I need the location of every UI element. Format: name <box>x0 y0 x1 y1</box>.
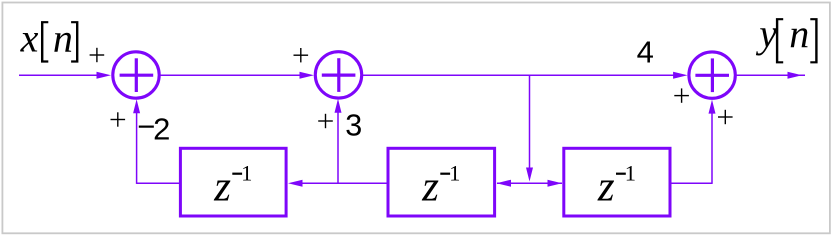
wire Z2 output to Z1 input <box>288 180 387 187</box>
delay block Z3 <box>564 148 670 216</box>
node y[n] output label <box>755 11 817 63</box>
plus sign S3 lower-right <box>718 110 733 124</box>
svg-text:n: n <box>53 15 73 60</box>
wire tap from top line down to delay line junction <box>526 75 533 181</box>
svg-text:1: 1 <box>241 161 252 186</box>
plus sign S1 upper-left <box>90 48 105 62</box>
plus sign S2 upper-left <box>294 48 309 62</box>
wire Z3 output up to adder S3 <box>671 100 715 184</box>
svg-text:x: x <box>20 16 39 61</box>
wire Z1 output up to adder S1 <box>133 99 179 184</box>
adder S2 <box>315 52 361 98</box>
node x[n] input label <box>20 15 79 62</box>
svg-text:z: z <box>421 163 439 210</box>
wire adder S1 to adder S2 <box>160 72 314 79</box>
wire adder S2 to adder S3 <box>363 72 688 79</box>
wire branch up from Z2 output to adder S2 <box>335 99 342 183</box>
gain label -2 <box>137 109 170 146</box>
wire input x[n] to adder S1 <box>19 72 111 79</box>
delay block Z2 <box>388 148 495 216</box>
svg-text:y: y <box>755 11 777 56</box>
wire junction tee into Z2 and Z3 <box>497 180 563 187</box>
plus sign S1 lower <box>111 112 126 126</box>
svg-text:z: z <box>597 163 615 210</box>
svg-text:2: 2 <box>153 112 170 147</box>
svg-text:n: n <box>789 11 809 56</box>
delay block Z1 <box>180 148 286 216</box>
plus sign S3 lower-left <box>674 88 689 102</box>
svg-text:z: z <box>213 163 231 210</box>
svg-text:1: 1 <box>449 161 460 186</box>
adder S1 <box>113 52 159 98</box>
plus sign S2 lower <box>318 114 333 128</box>
svg-text:4: 4 <box>637 35 654 70</box>
svg-text:1: 1 <box>625 161 636 186</box>
adder S3 <box>689 52 735 98</box>
wire adder S3 to output y[n] <box>737 72 805 79</box>
svg-text:3: 3 <box>345 109 362 143</box>
